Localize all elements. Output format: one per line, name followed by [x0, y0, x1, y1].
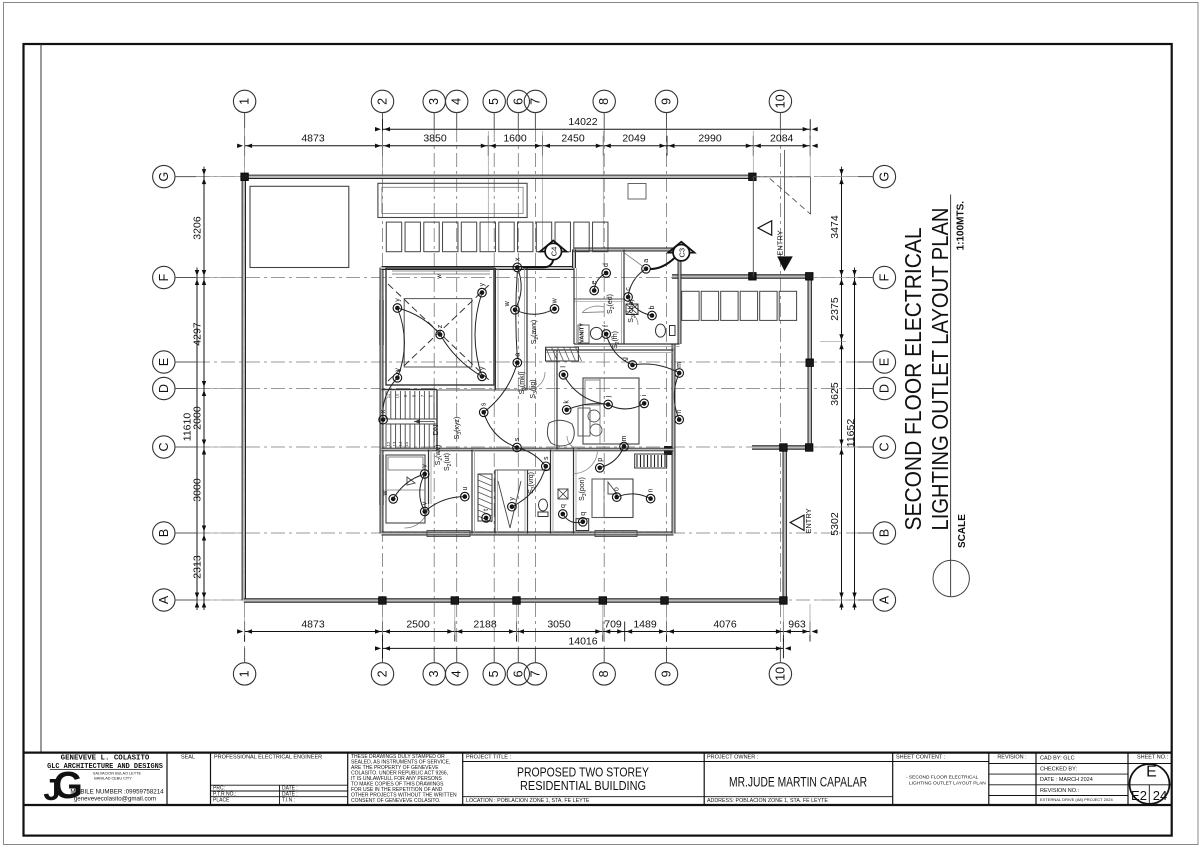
partition stair top — [382, 390, 438, 450]
grid line 10 — [779, 128, 781, 648]
grid bubble 10 bottom — [769, 648, 791, 685]
left dimension string — [182, 167, 241, 610]
svg-text:SECOND FLOOR ELECTRICAL: SECOND FLOOR ELECTRICAL — [900, 227, 926, 530]
drawing title rotated — [900, 208, 953, 531]
svg-text:10: 10 — [773, 94, 787, 108]
svg-text:v: v — [422, 501, 429, 505]
cad info cell — [1036, 756, 1128, 803]
grid bubble 1 top — [233, 90, 255, 128]
scale circle — [933, 560, 969, 596]
wall column 10 upper — [808, 277, 811, 448]
grid bubble 3 bottom — [423, 648, 445, 685]
svg-text:14016: 14016 — [568, 635, 597, 647]
stair label DN — [431, 425, 440, 436]
svg-text:k: k — [564, 400, 571, 404]
svg-text:LIGHTING OUTLET LAYOUT PLAN: LIGHTING OUTLET LAYOUT PLAN — [909, 781, 986, 787]
svg-text:x: x — [380, 409, 387, 413]
svg-text:10: 10 — [395, 393, 400, 398]
svg-text:963: 963 — [788, 619, 806, 631]
svg-text:PROFESSIONAL ELECTRICAL ENGINE: PROFESSIONAL ELECTRICAL ENGINEER — [214, 755, 322, 761]
light outlet z — [436, 324, 445, 339]
light outlet o — [612, 487, 621, 501]
title block company — [47, 755, 164, 803]
toilet lower bath — [538, 489, 568, 517]
svg-text:MOBILE NUMBER :09959758214: MOBILE NUMBER :09959758214 — [70, 789, 164, 796]
light outlet e — [590, 280, 599, 294]
wardrobe hatch bottom-left bath — [478, 474, 492, 522]
grid line 2 — [382, 128, 384, 648]
light outlet v — [420, 501, 429, 516]
svg-text:s: s — [481, 402, 488, 406]
light outlet y — [393, 298, 402, 313]
svg-text:genevevecolasito@gmail.com: genevevecolasito@gmail.com — [74, 796, 156, 803]
beam row C right — [752, 446, 811, 449]
svg-text:4873: 4873 — [301, 133, 325, 145]
svg-text:v: v — [422, 464, 429, 468]
svg-text:ENTRY: ENTRY — [804, 508, 813, 533]
beam row F entry — [672, 275, 813, 278]
svg-text:F: F — [157, 273, 171, 281]
project title cell — [463, 755, 705, 804]
washbasin vanity — [578, 323, 602, 343]
porch wall right column 10 — [783, 448, 786, 601]
svg-text:1: 1 — [238, 670, 252, 677]
toilet upper bath — [626, 304, 675, 337]
revision cell — [989, 755, 1036, 796]
svg-text:15: 15 — [404, 441, 409, 446]
svg-text:A: A — [157, 595, 171, 604]
light outlet n — [675, 410, 684, 424]
svg-text:- SECOND FLOOR ELECTRICAL: - SECOND FLOOR ELECTRICAL — [906, 775, 979, 781]
window on wall G right — [628, 184, 646, 200]
svg-text:1:100MTS.: 1:100MTS. — [956, 201, 967, 251]
building outer wall right lower — [672, 344, 675, 534]
grid bubble A left — [153, 589, 196, 611]
top dimension string — [237, 131, 818, 276]
grid bubble 5 top — [483, 90, 505, 128]
grid bubble B left — [153, 522, 196, 544]
grid bubble 1 bottom — [233, 648, 255, 685]
svg-text:q: q — [580, 512, 587, 516]
switch label — [454, 417, 463, 440]
living room diagonal brace — [388, 284, 490, 381]
grid line B — [196, 532, 858, 534]
light outlet x — [379, 409, 388, 424]
svg-text:u: u — [462, 487, 469, 491]
svg-text:B: B — [157, 529, 171, 537]
svg-text:5302: 5302 — [829, 512, 841, 536]
right dimension string — [815, 167, 858, 610]
svg-text:MR.JUDE MARTIN CAPALAR: MR.JUDE MARTIN CAPALAR — [729, 775, 867, 790]
grid bubble 5 bottom — [483, 648, 505, 685]
wiring arcs — [383, 267, 679, 522]
dimension 14022 overall top — [375, 116, 818, 139]
svg-text:8: 8 — [597, 670, 611, 677]
svg-text:C: C — [877, 442, 891, 451]
svg-text:2500: 2500 — [406, 619, 430, 631]
svg-text:2375: 2375 — [829, 297, 841, 321]
grid bubble 8 top — [593, 90, 615, 128]
terrace wall row G — [242, 175, 753, 178]
light outlet n — [646, 489, 655, 503]
svg-text:LIGHTING OUTLET LAYOUT PLAN: LIGHTING OUTLET LAYOUT PLAN — [927, 208, 953, 531]
light outlet b — [648, 305, 657, 319]
stair tread numbers — [386, 393, 434, 446]
closet hatch mid bedroom — [546, 347, 582, 361]
grid bubble C left — [153, 436, 196, 458]
switch label — [628, 299, 637, 322]
switch label — [435, 445, 444, 466]
grid line 1 — [244, 128, 246, 648]
grid bubble 7 bottom — [524, 648, 546, 685]
svg-text:m: m — [621, 435, 628, 441]
light outlet y — [478, 366, 487, 381]
light outlet s — [513, 437, 522, 452]
stair treads upper flight — [386, 391, 437, 419]
grid bubble 9 top — [655, 90, 677, 128]
bed bottom-left bedroom — [386, 455, 425, 523]
svg-text:w: w — [437, 274, 443, 280]
svg-text:SHEET CONTENT :: SHEET CONTENT : — [896, 755, 946, 761]
svg-text:ADDRESS: POBLACION ZONE 1, STA: ADDRESS: POBLACION ZONE 1, STA. FE LEYTE — [707, 798, 828, 804]
grid bubble 10 top — [769, 90, 791, 128]
entry arrow right — [790, 508, 813, 533]
seal cell — [181, 755, 195, 761]
svg-text:5: 5 — [487, 670, 501, 677]
svg-text:CONSENT OF GENEVEVE COLASITO.: CONSENT OF GENEVEVE COLASITO. — [351, 798, 441, 804]
svg-text:DN: DN — [431, 425, 440, 436]
svg-text:4: 4 — [450, 670, 464, 677]
light outlet y — [508, 496, 517, 511]
svg-text:C: C — [157, 442, 171, 451]
svg-text:1: 1 — [238, 98, 252, 105]
bottom rooms partitions — [405, 448, 577, 534]
svg-text:12: 12 — [386, 441, 391, 446]
svg-text:REVISION :: REVISION : — [997, 755, 1027, 761]
svg-text:4873: 4873 — [301, 619, 325, 631]
svg-text:c: c — [625, 287, 632, 291]
sheet content cell — [893, 755, 989, 787]
svg-text:G: G — [157, 172, 171, 182]
grid line 7 — [534, 128, 536, 648]
wardrobe hatch bottom-right bedroom — [635, 454, 667, 468]
dimension 14016 overall bottom — [375, 635, 791, 658]
grid bubble 6 bottom — [507, 648, 529, 685]
grid bubble 7 top — [524, 90, 546, 128]
partition wall living right — [495, 268, 498, 390]
roof rectangle top-left terrace — [250, 186, 349, 267]
svg-text:y: y — [479, 282, 486, 286]
left binding margin line — [40, 44, 42, 753]
light outlet m — [675, 362, 684, 377]
mid bedroom wall left — [545, 350, 674, 450]
column markers — [241, 173, 814, 604]
light outlet w — [550, 297, 559, 313]
svg-text:3625: 3625 — [829, 382, 841, 406]
svg-text:6: 6 — [511, 98, 525, 105]
svg-text:y: y — [509, 496, 516, 500]
porch light box — [576, 519, 589, 531]
svg-text:z: z — [437, 324, 444, 328]
switch label — [612, 331, 621, 349]
light outlet y — [478, 282, 487, 297]
grid bubble 4 top — [446, 90, 468, 128]
door arcs — [527, 306, 638, 473]
light outlet y — [393, 368, 402, 383]
building outer wall bottom — [382, 532, 674, 535]
grid bubble D left — [153, 377, 196, 399]
svg-text:7: 7 — [528, 98, 542, 105]
grid line E — [196, 361, 858, 363]
light outlet q — [559, 504, 568, 518]
svg-text:3: 3 — [427, 98, 441, 105]
svg-text:SEAL: SEAL — [181, 755, 195, 761]
svg-text:9: 9 — [660, 98, 674, 105]
light outlet w — [382, 489, 397, 503]
svg-text:CAD BY: GLC: CAD BY: GLC — [1040, 756, 1075, 762]
title scale text — [956, 201, 967, 251]
grid bubble 3 top — [423, 90, 445, 128]
grid bubble F right — [858, 266, 896, 288]
svg-text:3850: 3850 — [423, 133, 447, 145]
light outlet m — [620, 435, 629, 450]
scale label — [957, 514, 968, 548]
grid line 4 — [456, 128, 458, 648]
light outlet k — [562, 400, 571, 415]
svg-text:E2: E2 — [1131, 788, 1147, 803]
grid bubble 6 top — [507, 90, 529, 128]
grid bubble 8 bottom — [593, 648, 615, 685]
svg-text:2084: 2084 — [770, 133, 794, 145]
grid bubble 4 bottom — [446, 648, 468, 685]
light outlet c — [624, 287, 633, 302]
light outlet u — [461, 487, 470, 501]
svg-text:4: 4 — [450, 98, 464, 105]
sheet number cell — [1128, 755, 1172, 806]
light outlet x — [513, 257, 522, 272]
svg-text:3: 3 — [427, 670, 441, 677]
svg-text:PLACE: PLACE — [213, 797, 230, 803]
svg-text:CHECKED BY:: CHECKED BY: — [1040, 767, 1077, 773]
svg-text:D: D — [157, 384, 171, 393]
grid line 6 — [517, 128, 519, 648]
sliding door bottom wall — [427, 531, 637, 537]
window left wall — [380, 300, 384, 505]
svg-text:BANILAD CEBU CITY: BANILAD CEBU CITY — [94, 777, 132, 781]
living room double-height walls — [386, 268, 494, 385]
svg-text:x: x — [514, 257, 521, 261]
svg-text:f: f — [603, 325, 610, 327]
building outer wall left — [380, 268, 383, 534]
light outlet a — [642, 259, 651, 273]
svg-text:F: F — [877, 273, 891, 281]
entry arrow top — [758, 150, 793, 271]
svg-text:4076: 4076 — [713, 619, 737, 631]
grid bubble 2 bottom — [371, 648, 393, 685]
svg-text:C4: C4 — [550, 247, 559, 257]
svg-text:9: 9 — [660, 670, 674, 677]
bath interior partitions — [574, 250, 680, 347]
terrace wall left column 1 — [242, 177, 245, 601]
grid bubble G right — [858, 165, 896, 187]
svg-text:1489: 1489 — [633, 619, 657, 631]
svg-text:2188: 2188 — [473, 619, 497, 631]
switch label — [607, 294, 616, 314]
svg-text:LOCATION : POBLACION ZONE 1,: LOCATION : POBLACION ZONE 1, STA. FE LEY… — [466, 798, 590, 804]
interior wall row B — [382, 448, 674, 451]
light outlet w — [504, 300, 519, 314]
grid line A — [196, 599, 858, 601]
svg-text:E: E — [157, 358, 171, 366]
svg-text:J: J — [43, 772, 60, 807]
pergola slats top — [386, 222, 608, 252]
svg-text:2450: 2450 — [561, 133, 585, 145]
svg-text:RESIDENTIAL BUILDING: RESIDENTIAL BUILDING — [520, 778, 646, 793]
svg-text:w: w — [552, 297, 559, 304]
svg-text:B: B — [877, 529, 891, 537]
light outlet i — [640, 394, 649, 408]
building wall top living room — [382, 267, 575, 270]
svg-text:s: s — [514, 437, 521, 441]
switch label — [579, 477, 588, 501]
svg-text:p: p — [597, 458, 604, 462]
grid bubble E left — [153, 351, 196, 373]
svg-text:ENTRY: ENTRY — [776, 230, 785, 255]
svg-text:o: o — [614, 487, 621, 491]
grid bubble B right — [858, 522, 896, 544]
armchair mid bedroom — [547, 420, 574, 446]
thin line top-right roof edge — [753, 177, 811, 277]
grid bubble F left — [153, 266, 196, 288]
light outlet p — [596, 458, 605, 472]
stair treads lower flight — [386, 424, 437, 448]
svg-text:2049: 2049 — [622, 133, 646, 145]
svg-text:PROJECT OWNER :: PROJECT OWNER : — [707, 755, 759, 761]
svg-text:s: s — [543, 456, 550, 460]
svg-text:5: 5 — [487, 98, 501, 105]
svg-text:1600: 1600 — [503, 133, 527, 145]
light outlet d — [602, 263, 611, 277]
roof strip above living — [378, 183, 527, 217]
svg-text:A: A — [877, 595, 891, 604]
grid line 9 — [666, 128, 668, 648]
svg-text:13: 13 — [392, 441, 397, 446]
grid line 8 — [603, 128, 605, 648]
svg-text:a: a — [643, 259, 650, 263]
svg-text:d: d — [603, 263, 610, 267]
company logo — [43, 765, 82, 807]
partition hallway x527 — [525, 268, 528, 390]
svg-text:j: j — [605, 395, 612, 398]
light outlet q — [579, 512, 588, 526]
svg-text:SCALE: SCALE — [957, 514, 968, 548]
svg-text:C3: C3 — [678, 248, 687, 258]
svg-text:2: 2 — [376, 670, 390, 677]
light outlet g — [622, 357, 637, 369]
light outlet a — [513, 353, 522, 367]
svg-text:6: 6 — [511, 670, 525, 677]
svg-text:11652: 11652 — [845, 419, 857, 448]
window band living top — [392, 271, 490, 280]
project owner cell — [704, 755, 893, 804]
callout marker C4 — [523, 241, 567, 268]
svg-text:11610: 11610 — [182, 413, 194, 442]
svg-text:24: 24 — [1153, 788, 1167, 803]
svg-text:T.I.N :: T.I.N : — [282, 797, 295, 803]
svg-text:D: D — [877, 384, 891, 393]
svg-text:14: 14 — [398, 441, 403, 446]
bed mid bedroom — [583, 378, 639, 444]
desk mid bedroom — [578, 408, 602, 436]
grid bubble C right — [858, 436, 896, 458]
light outlet j — [604, 395, 613, 409]
svg-text:SHEET NO.:: SHEET NO.: — [1137, 755, 1169, 761]
svg-text:G: G — [877, 172, 891, 182]
svg-text:2990: 2990 — [698, 133, 722, 145]
svg-text:10: 10 — [773, 667, 787, 681]
grid line 3 — [433, 128, 435, 648]
svg-text:3050: 3050 — [547, 619, 571, 631]
shower symbol lower bath — [498, 481, 521, 528]
svg-text:w: w — [504, 300, 511, 307]
grid line G — [196, 176, 858, 178]
svg-text:E: E — [1146, 764, 1157, 781]
svg-text:DATE : MARCH 2024: DATE : MARCH 2024 — [1040, 777, 1093, 783]
light outlet s — [542, 456, 551, 471]
svg-text:REVISION NO.:: REVISION NO.: — [1040, 788, 1080, 794]
light outlet f — [602, 325, 611, 338]
bath block left wall — [573, 250, 576, 269]
switch label — [531, 320, 540, 345]
svg-text:EXTERNAL DRIVE (A8) PROJECT 20: EXTERNAL DRIVE (A8) PROJECT 2024 — [1040, 797, 1113, 802]
svg-text:y: y — [394, 298, 401, 302]
svg-text:2: 2 — [376, 98, 390, 105]
hall wall y390 — [437, 389, 527, 391]
svg-text:q: q — [560, 504, 567, 508]
svg-text:VANITY: VANITY — [580, 323, 586, 343]
grid bubble 2 top — [371, 90, 393, 128]
switch label — [528, 472, 537, 494]
grid bubble D right — [858, 377, 896, 399]
grid bubble 9 bottom — [655, 648, 677, 685]
callout marker C3 — [625, 242, 695, 269]
grid line 5 — [493, 128, 495, 648]
entry steps slats right — [682, 291, 797, 320]
bottom dimension string — [237, 604, 817, 642]
svg-text:t: t — [483, 509, 490, 511]
svg-text:b: b — [649, 305, 656, 309]
light outlet t — [482, 509, 491, 522]
grid line F — [196, 277, 858, 279]
stair direction arrow — [414, 419, 434, 423]
svg-text:3474: 3474 — [829, 215, 841, 239]
svg-text:PROJECT TITLE :: PROJECT TITLE : — [466, 755, 512, 761]
svg-text:GENEVEVE L. COLASITO: GENEVEVE L. COLASITO — [61, 755, 150, 763]
svg-text:E: E — [877, 358, 891, 366]
svg-text:709: 709 — [604, 619, 622, 631]
light outlet s — [479, 402, 488, 417]
switch label — [519, 371, 528, 394]
svg-text:w: w — [382, 489, 389, 496]
svg-text:14022: 14022 — [568, 116, 597, 128]
svg-text:8: 8 — [597, 98, 611, 105]
grid line C — [196, 446, 858, 448]
disclaimer cell — [351, 754, 457, 804]
light outlet v — [420, 464, 429, 479]
svg-text:n: n — [648, 489, 655, 493]
svg-text:SALVACION BULAO LEYTE: SALVACION BULAO LEYTE — [93, 772, 142, 776]
title block frame — [24, 753, 1172, 805]
